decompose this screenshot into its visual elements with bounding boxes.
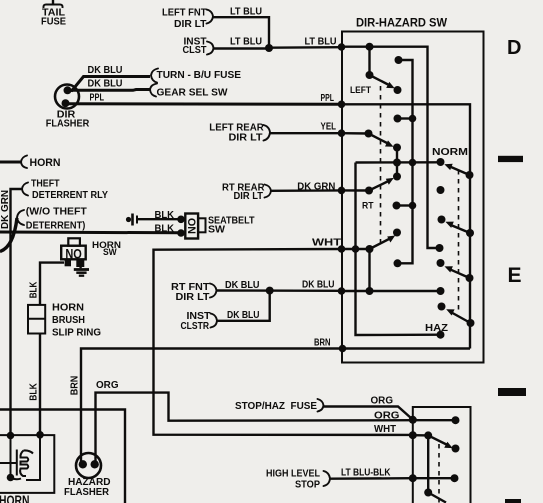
dashed linkage stop box [438, 444, 440, 503]
wire LT BLU from INST CLST [214, 47, 270, 49]
horn brush slip ring box [28, 305, 45, 334]
wire ORG stop/haz fuse [324, 407, 413, 420]
svg-text:ORG: ORG [374, 411, 400, 422]
dir flasher terminal 2 [62, 99, 70, 107]
wire HORN stub [0, 161, 22, 164]
wire WHT long path [154, 249, 413, 435]
grid dash 2 [498, 388, 526, 396]
contact HAZ upper [438, 303, 446, 311]
node WHT entry [338, 245, 346, 253]
svg-text:NO: NO [65, 246, 82, 261]
wire relay left stub [0, 462, 16, 464]
svg-text:STOP: STOP [295, 480, 320, 491]
wire DK GRN inside [342, 189, 370, 192]
hazard flasher U2 circle [76, 453, 101, 478]
label DIR FLASHER [46, 110, 90, 130]
svg-text:FLASHER: FLASHER [46, 119, 90, 130]
node stop box lt blu-blk [409, 474, 417, 482]
svg-text:BRN: BRN [70, 376, 81, 396]
svg-text:DIR LT: DIR LT [234, 191, 264, 202]
switch arm YEL [365, 130, 394, 147]
wire PPL to pivot bus [342, 104, 471, 348]
bracket RT FNT DIR LT [210, 284, 217, 298]
contact NORM [437, 158, 445, 166]
label THEFT DETERRENT RLY [31, 178, 108, 201]
wire contact chain [396, 148, 398, 177]
label RT REAR DIR LT [222, 182, 265, 202]
wire BRN hazard flasher [81, 349, 343, 463]
contact chain bottom [393, 173, 401, 181]
contact WHT throw [393, 229, 401, 237]
svg-text:DK GRN: DK GRN [0, 190, 11, 229]
wire LT BLU-BLK [330, 477, 413, 480]
switch arm NORM [444, 164, 473, 179]
node V4 row2 [409, 115, 417, 123]
horn relay box [0, 435, 54, 493]
svg-text:LEFT: LEFT [350, 85, 371, 96]
svg-text:WHT: WHT [374, 424, 397, 435]
wire relay inner grn [10, 436, 12, 478]
node relay coil feed [7, 432, 15, 440]
svg-text:HIGH LEVEL: HIGH LEVEL [266, 469, 321, 480]
svg-text:LEFT FNT: LEFT FNT [162, 7, 207, 18]
wire LT BLU to switch [269, 46, 342, 49]
node LT BLU bus junction [366, 43, 374, 51]
bracket THEFT DETERRENT RLY [22, 183, 28, 196]
node relay coil bottom [7, 474, 15, 482]
svg-text:DK BLU: DK BLU [225, 280, 260, 291]
label (W/O THEFT DETERRENT) [26, 206, 88, 231]
node chain mid [393, 159, 401, 167]
contact right 3 [437, 259, 445, 267]
seatbelt switch NO box [185, 214, 205, 239]
node stop box wht [409, 431, 417, 439]
svg-text:WHT: WHT [312, 238, 342, 249]
bracket INST CLSTR [211, 314, 218, 328]
svg-text:DIR-HAZARD SW: DIR-HAZARD SW [356, 17, 447, 30]
switch arm right 2 [445, 222, 474, 237]
contact chain top [393, 144, 401, 152]
svg-text:LT BLU-BLK: LT BLU-BLK [341, 468, 391, 479]
contact upper right of LEFT [436, 244, 444, 252]
svg-text:HORN: HORN [0, 492, 29, 503]
label RT FNT DIR LT [171, 282, 210, 303]
svg-text:LT BLU: LT BLU [230, 6, 262, 17]
contact DK BLU end [437, 287, 445, 295]
switch arm WHT [366, 236, 396, 254]
node stop box org [409, 416, 417, 424]
wire NORM feed [356, 161, 441, 164]
wire DK BLU inside [342, 290, 441, 292]
bracket LEFT REAR DIR LT [264, 125, 271, 141]
wire stop box lt blu-blk contact [413, 477, 455, 479]
label INST CLST [183, 37, 208, 56]
contact stop box 2 [452, 445, 460, 453]
node BRN entry [339, 345, 347, 353]
node relay blk feed [36, 431, 44, 439]
label LEFT REAR DIR LT [209, 123, 264, 144]
label INST CLSTR [181, 311, 212, 332]
node YEL entry [338, 129, 346, 137]
hazard flasher terminal 1 [79, 460, 87, 468]
svg-text:DK BLU: DK BLU [88, 79, 123, 90]
terminal seatbelt upper [177, 216, 185, 224]
wire YEL [270, 132, 342, 134]
svg-text:BLK: BLK [29, 281, 40, 298]
horn switch NO box [61, 238, 85, 267]
switch arm right 3 [445, 266, 474, 282]
contact row2 left [394, 115, 402, 123]
svg-text:DK BLU: DK BLU [227, 310, 260, 321]
fuse symbol TAIL FUSE [43, 0, 62, 8]
svg-text:DK BLU: DK BLU [88, 65, 123, 76]
wire ORG hazard flasher [96, 393, 413, 462]
node DK GRN entry [338, 187, 346, 195]
wire DK GRN to switch [271, 189, 342, 192]
svg-text:TURN - B/U FUSE: TURN - B/U FUSE [157, 70, 242, 81]
svg-text:BLK: BLK [155, 210, 175, 221]
stop lamp switch box [413, 407, 471, 503]
grid dash 3 [505, 499, 521, 503]
bracket W/O THEFT [17, 210, 24, 225]
switch arm RT [365, 178, 394, 195]
svg-text:DIR LT: DIR LT [174, 19, 207, 30]
wire BLK horn brush [40, 263, 64, 305]
svg-text:D: D [507, 37, 521, 59]
node LT BLU entry [338, 43, 346, 51]
svg-text:HAZ: HAZ [425, 323, 449, 334]
wire DK BLU inst clstr [217, 291, 270, 321]
bracket RT REAR DIR LT [265, 185, 272, 198]
wire DK BLU to GEAR SEL SW [70, 88, 150, 92]
wire WHT inside [342, 249, 370, 291]
bracket HIGH LEVEL STOP [324, 471, 331, 486]
bracket STOP/HAZ FUSE [318, 399, 324, 412]
svg-text:PPL: PPL [321, 93, 335, 104]
label HIGH LEVEL STOP [266, 469, 321, 491]
wire DK BLU rt fnt [217, 289, 342, 292]
bracket HORN [21, 156, 27, 169]
terminal seatbelt lower [177, 229, 185, 237]
node WHT x HAZ riser [352, 245, 360, 253]
dashed linkage left [380, 86, 382, 246]
svg-text:HORN: HORN [52, 302, 84, 313]
dashed linkage right [458, 170, 460, 312]
contact mid right 1 [437, 186, 445, 194]
svg-text:DIR LT: DIR LT [176, 292, 211, 303]
node DK BLU entry [338, 287, 346, 295]
grid dash 1 [498, 156, 523, 162]
node bus V4 end [394, 259, 402, 267]
svg-text:SW: SW [208, 225, 225, 236]
svg-text:ORG: ORG [96, 380, 119, 391]
svg-text:DK BLU: DK BLU [302, 280, 335, 291]
contact mid right 2 [438, 216, 446, 224]
label HAZARD FLASHER [64, 477, 111, 498]
wire bus V4 [398, 60, 413, 263]
node DK BLU junction [266, 287, 274, 295]
hazard flasher terminal 2 [91, 460, 99, 468]
ground horn switch [74, 267, 89, 276]
wire BLK seatbelt lower [0, 231, 181, 235]
wire PPL to DIR-HAZARD SW [67, 102, 342, 106]
svg-text:DIR LT: DIR LT [229, 133, 264, 144]
svg-text:E: E [508, 264, 522, 287]
contact stop box 1 [452, 416, 460, 424]
switch arm stop lower [424, 489, 446, 503]
label HORN SW [92, 240, 121, 257]
wire contact row2 to V4 [398, 117, 413, 119]
switch arm stop upper [424, 431, 453, 448]
bracket INST CLST [207, 42, 214, 55]
svg-text:LT BLU: LT BLU [305, 36, 337, 47]
svg-text:SW: SW [103, 247, 117, 257]
wire LT BLU from LEFT FNT DIR LT [213, 17, 269, 48]
dir flasher U1 circle [55, 85, 79, 109]
svg-text:DETERRENT): DETERRENT) [26, 221, 86, 232]
node PPL entry [338, 101, 346, 109]
wire horn feed long [0, 410, 125, 503]
wire LT BLU bus inside [342, 47, 440, 248]
contact LEFT throw [394, 86, 402, 94]
node V4 on NORM feed [409, 159, 417, 167]
label HORN BRUSH SLIP RING [52, 302, 101, 338]
contact to bus V4 top [395, 56, 403, 64]
svg-text:CLST: CLST [183, 45, 208, 56]
svg-text:FUSE: FUSE [41, 16, 66, 27]
dir flasher terminal 1 [64, 86, 72, 94]
svg-text:BLK: BLK [155, 224, 175, 235]
bracket TURN - B/U FUSE [151, 69, 158, 83]
node V4 RT throw [409, 202, 417, 210]
wire stop box org contact [413, 419, 456, 421]
junction LT BLU [265, 44, 273, 52]
label TAIL FUSE [41, 7, 66, 27]
wire BLK seatbelt upper [138, 218, 181, 220]
wire curved to W/O THEFT [0, 218, 17, 252]
label LEFT FNT DIR LT [162, 7, 207, 30]
svg-text:CLSTR: CLSTR [181, 321, 210, 332]
wire stop box wht to pivot [413, 435, 428, 492]
svg-text:HORN: HORN [30, 157, 61, 169]
svg-text:ORG: ORG [371, 396, 394, 407]
svg-text:NORM: NORM [432, 147, 468, 158]
svg-text:DETERRENT RLY: DETERRENT RLY [32, 190, 108, 201]
wire DK GRN theft deterrent rly [11, 189, 23, 436]
svg-text:GEAR SEL SW: GEAR SEL SW [157, 88, 228, 99]
svg-text:(W/O THEFT: (W/O THEFT [26, 206, 88, 217]
svg-text:FLASHER: FLASHER [64, 487, 109, 498]
svg-text:YEL: YEL [321, 122, 337, 133]
svg-text:NO: NO [187, 218, 199, 234]
switch arm LEFT [366, 71, 395, 88]
wire RT throw to V4 [397, 204, 413, 206]
svg-text:BRUSH: BRUSH [52, 315, 85, 326]
connector seatbelt wire [126, 214, 137, 226]
svg-text:STOP/HAZ FUSE: STOP/HAZ FUSE [235, 401, 317, 412]
contact stop box 3 [451, 474, 459, 482]
wire relay inner blk [26, 435, 40, 480]
wire BRN inside [343, 347, 471, 349]
svg-text:DK GRN: DK GRN [297, 182, 335, 193]
svg-text:BLK: BLK [29, 383, 40, 401]
svg-text:RT: RT [362, 201, 374, 212]
dir-hazard switch box outline [342, 32, 484, 363]
svg-text:LT BLU: LT BLU [230, 36, 262, 47]
contact HAZ lower [437, 331, 445, 339]
svg-text:PPL: PPL [90, 93, 105, 104]
label SEATBELT SW [208, 216, 255, 236]
bracket LEFT FNT DIR LT [207, 10, 214, 24]
wire BLK slip ring to relay [39, 334, 41, 435]
node DK BLU pivot chain [366, 287, 374, 295]
wire DK BLU to TURN - B/U FUSE [68, 77, 150, 91]
contact row RT throw [393, 202, 401, 210]
wire YEL inside [342, 132, 369, 135]
switch arm HAZ [446, 309, 474, 327]
svg-text:THEFT: THEFT [31, 178, 60, 189]
wire HAZ riser [356, 163, 441, 336]
bracket GEAR SEL SW [150, 84, 157, 97]
wire LEFT pivot drop [368, 47, 370, 75]
relay coil symbol [11, 450, 34, 480]
svg-text:BRN: BRN [314, 338, 331, 349]
svg-text:SLIP RING: SLIP RING [52, 328, 101, 339]
